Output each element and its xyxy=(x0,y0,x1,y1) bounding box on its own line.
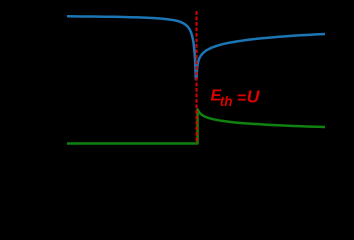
chart: electrode potential vs time plot on black background xyxy=(0,0,354,184)
svg-text:th: th xyxy=(220,94,233,109)
blue curve left branch (slow decline diverging down to cusp) xyxy=(67,16,196,79)
blue curve right branch (recovery rising to plateau) xyxy=(197,34,325,79)
green curve (lower trace: flat, step up at threshold, slow decay) xyxy=(67,109,325,143)
red label E_th = U xyxy=(211,87,260,109)
red dashed threshold line xyxy=(196,11,198,144)
svg-text:=: = xyxy=(237,90,246,107)
svg-text:U: U xyxy=(247,87,260,107)
